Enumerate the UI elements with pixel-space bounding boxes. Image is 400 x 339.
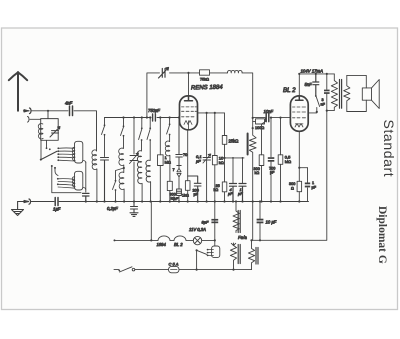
capacitor rail bypass — [83, 193, 90, 201]
tube BL2 envelope — [290, 96, 308, 131]
svg-text:75kΩ: 75kΩ — [200, 78, 209, 82]
ground — [12, 202, 24, 216]
wire switch rail down — [52, 166, 81, 193]
coil oscillator long — [137, 151, 142, 202]
antenna coil box — [41, 119, 59, 141]
svg-text:1µF: 1µF — [53, 207, 61, 212]
lamp dial — [193, 236, 201, 244]
wire antenna line — [32, 111, 97, 151]
wire plate line tube1 — [198, 112, 225, 114]
svg-text:Standart: Standart — [381, 120, 397, 178]
wire osc down — [252, 118, 254, 128]
ground jack plug — [24, 199, 31, 204]
antenna jack plug — [24, 108, 32, 114]
capacitor 700pF — [270, 117, 272, 119]
svg-text:BL 2: BL 2 — [283, 87, 296, 94]
column sw1: switch — [102, 118, 105, 157]
svg-text:kΩ: kΩ — [214, 188, 219, 192]
tube BL2 cathode heater — [295, 124, 303, 128]
capacitor 1uF screen — [239, 184, 246, 202]
resistor 1M grid leak — [159, 116, 161, 118]
wire BL2 plate side — [308, 112, 317, 113]
svg-text:11V 0,3A: 11V 0,3A — [189, 227, 206, 232]
svg-text:300: 300 — [289, 182, 295, 186]
node antenna tap — [47, 110, 49, 112]
svg-text:10 µF: 10 µF — [266, 219, 277, 224]
coil tuned 1b — [119, 168, 124, 202]
oscillator switch pair — [141, 116, 143, 118]
ground under trimmer — [130, 213, 138, 217]
IF transformer core — [247, 134, 249, 155]
wire BL2 cathode — [299, 131, 307, 167]
resistor 0.5M — [279, 117, 281, 119]
wire box1 leads — [41, 140, 47, 159]
coil taps box2 — [72, 177, 75, 187]
svg-text:Diplomat G: Diplomat G — [376, 206, 388, 264]
heater bump BL2 — [174, 236, 186, 240]
coil oscillator plate — [227, 70, 253, 118]
svg-text:4nF: 4nF — [65, 101, 73, 106]
svg-text:1: 1 — [312, 181, 314, 185]
svg-text:5nF: 5nF — [305, 82, 313, 87]
band switch box 2 — [75, 171, 83, 190]
transformer mains core — [238, 211, 240, 264]
svg-text:Ω: Ω — [291, 187, 294, 191]
switch fan 1 — [59, 148, 75, 161]
capacitor 10nF coupling — [266, 114, 269, 122]
svg-text:0,2µF: 0,2µF — [107, 206, 118, 211]
trimmer capacitor — [50, 127, 60, 138]
capacitor 70pF AVC — [178, 116, 180, 118]
resistor 25k lower — [222, 182, 227, 192]
svg-text:kΩ: kΩ — [255, 171, 260, 175]
resistor cathode tube1 — [187, 130, 189, 202]
wire bus to selector — [214, 202, 216, 241]
transformer output secondary — [344, 75, 350, 111]
wire ground bus — [18, 201, 309, 203]
oscillator feedback loop wire — [146, 116, 148, 118]
svg-text:1kΩ: 1kΩ — [182, 194, 189, 198]
wire bus to heater — [150, 202, 152, 241]
transformer core 2 — [256, 248, 258, 265]
resistor 100ohm coupling — [256, 119, 265, 124]
node osc feed — [252, 117, 254, 119]
capacitor 4nF — [70, 106, 73, 116]
capacitor 10uF — [259, 200, 261, 202]
tube RENS1884 grid dashes — [182, 107, 197, 117]
transformer mains primary — [230, 243, 236, 270]
switch branch left — [113, 168, 124, 202]
tube BL2 grid dashes — [293, 107, 306, 118]
svg-text:7: 7 — [173, 168, 175, 172]
svg-text:RENS 1884: RENS 1884 — [191, 85, 223, 92]
svg-text:100Ω: 100Ω — [255, 126, 264, 130]
transformer output core — [340, 80, 342, 109]
heater bump 1894 — [158, 236, 170, 240]
wire B+ top line — [299, 74, 334, 96]
svg-text:750µF: 750µF — [148, 108, 160, 113]
transformer output primary — [327, 74, 338, 111]
variable capacitor tuning — [130, 153, 139, 164]
svg-text:µF: µF — [196, 159, 201, 164]
column reaction: switch — [169, 116, 171, 118]
fuse C5A — [169, 266, 180, 272]
coil oscillator 2 — [146, 160, 151, 201]
capacitor 0.1uF anode — [203, 113, 211, 202]
svg-text:3: 3 — [322, 98, 324, 102]
svg-text:pF: pF — [194, 193, 199, 197]
switch arm 1 — [41, 151, 57, 159]
capacitor 0.2uF to ground — [131, 202, 138, 213]
switch mains — [120, 267, 133, 272]
capacitor uF block — [177, 189, 182, 196]
wire tube1 top lead — [188, 73, 190, 96]
svg-text:BL 2: BL 2 — [174, 242, 183, 247]
resistor 300ohm cathode — [297, 181, 302, 191]
tube RENS1884 cathode heater — [184, 121, 192, 130]
capacitor 1uF series in bus — [55, 198, 58, 206]
earth jack plug — [28, 117, 41, 123]
voltage selector panel — [214, 239, 216, 241]
coil reaction — [165, 141, 170, 181]
resistor 25k screen — [224, 113, 226, 182]
capacitor 200pF cathode — [188, 176, 201, 202]
svg-text:25kΩ: 25kΩ — [229, 139, 239, 144]
svg-text:C 5 A: C 5 A — [169, 261, 179, 266]
svg-text:70: 70 — [183, 153, 187, 157]
svg-text:µF: µF — [238, 192, 243, 196]
transformer winding rectifier — [248, 240, 254, 269]
coil taps box1 — [72, 147, 75, 160]
coil tuned 1 — [119, 148, 124, 168]
svg-text:1894: 1894 — [157, 242, 167, 247]
tube RENS1884 envelope — [180, 96, 198, 130]
coil wave trap — [92, 150, 97, 202]
capacitor 750pF series grid — [153, 114, 156, 121]
wire grid line BL2 — [253, 117, 291, 119]
coil antenna primary — [38, 124, 43, 139]
node tube1 plate top — [187, 72, 189, 74]
antenna — [9, 72, 27, 111]
wire heater line — [114, 239, 215, 241]
resistor 75k — [200, 70, 210, 75]
svg-text:Fe/a: Fe/a — [238, 235, 247, 240]
column coil1: switch — [122, 116, 124, 118]
IF transformer winding — [249, 128, 256, 240]
switch fan 2 — [58, 179, 75, 189]
wire mains line — [114, 269, 252, 271]
resistor 300k grid BL2 — [262, 123, 265, 202]
svg-text:MΩ: MΩ — [285, 159, 291, 164]
transformer mains choke — [235, 200, 237, 202]
switch selector arm — [197, 250, 207, 269]
capacitor rail small — [324, 90, 330, 92]
diode twin arrows — [177, 166, 181, 190]
wire box rail right — [85, 162, 87, 192]
resistor 10k — [214, 113, 216, 202]
svg-text:10nF: 10nF — [264, 109, 274, 114]
capacitor 5nF tone — [313, 74, 319, 96]
wire screen bracket — [225, 158, 245, 183]
trimmer capacitor feedback — [159, 68, 169, 79]
svg-text:µF: µF — [312, 186, 317, 190]
svg-text:µF: µF — [228, 192, 233, 196]
svg-text:8µF: 8µF — [202, 219, 210, 224]
speaker — [362, 88, 371, 100]
svg-text:µF: µF — [174, 197, 179, 201]
svg-text:nF: nF — [321, 103, 326, 107]
wire grid line — [105, 117, 180, 119]
wire tap to coil box — [47, 111, 49, 119]
band switch box 1 — [75, 141, 83, 163]
column trimmer — [133, 116, 135, 118]
svg-text:104V 17mA: 104V 17mA — [301, 69, 324, 74]
switch tone — [316, 96, 320, 112]
capacitor 1uF cathode — [299, 168, 307, 202]
svg-text:pF: pF — [270, 171, 275, 175]
svg-text:kΩ: kΩ — [219, 160, 224, 165]
capacitor col sw1 — [101, 158, 109, 202]
wire speaker loop — [347, 75, 367, 111]
capacitor 4uF — [230, 184, 237, 202]
capacitor 8uF selector — [211, 219, 218, 221]
wire B+ rail right — [253, 74, 327, 240]
tube RENS1884 anode bar — [185, 96, 193, 101]
resistor 300k — [167, 181, 172, 190]
tube BL2 anode bar — [296, 96, 304, 100]
